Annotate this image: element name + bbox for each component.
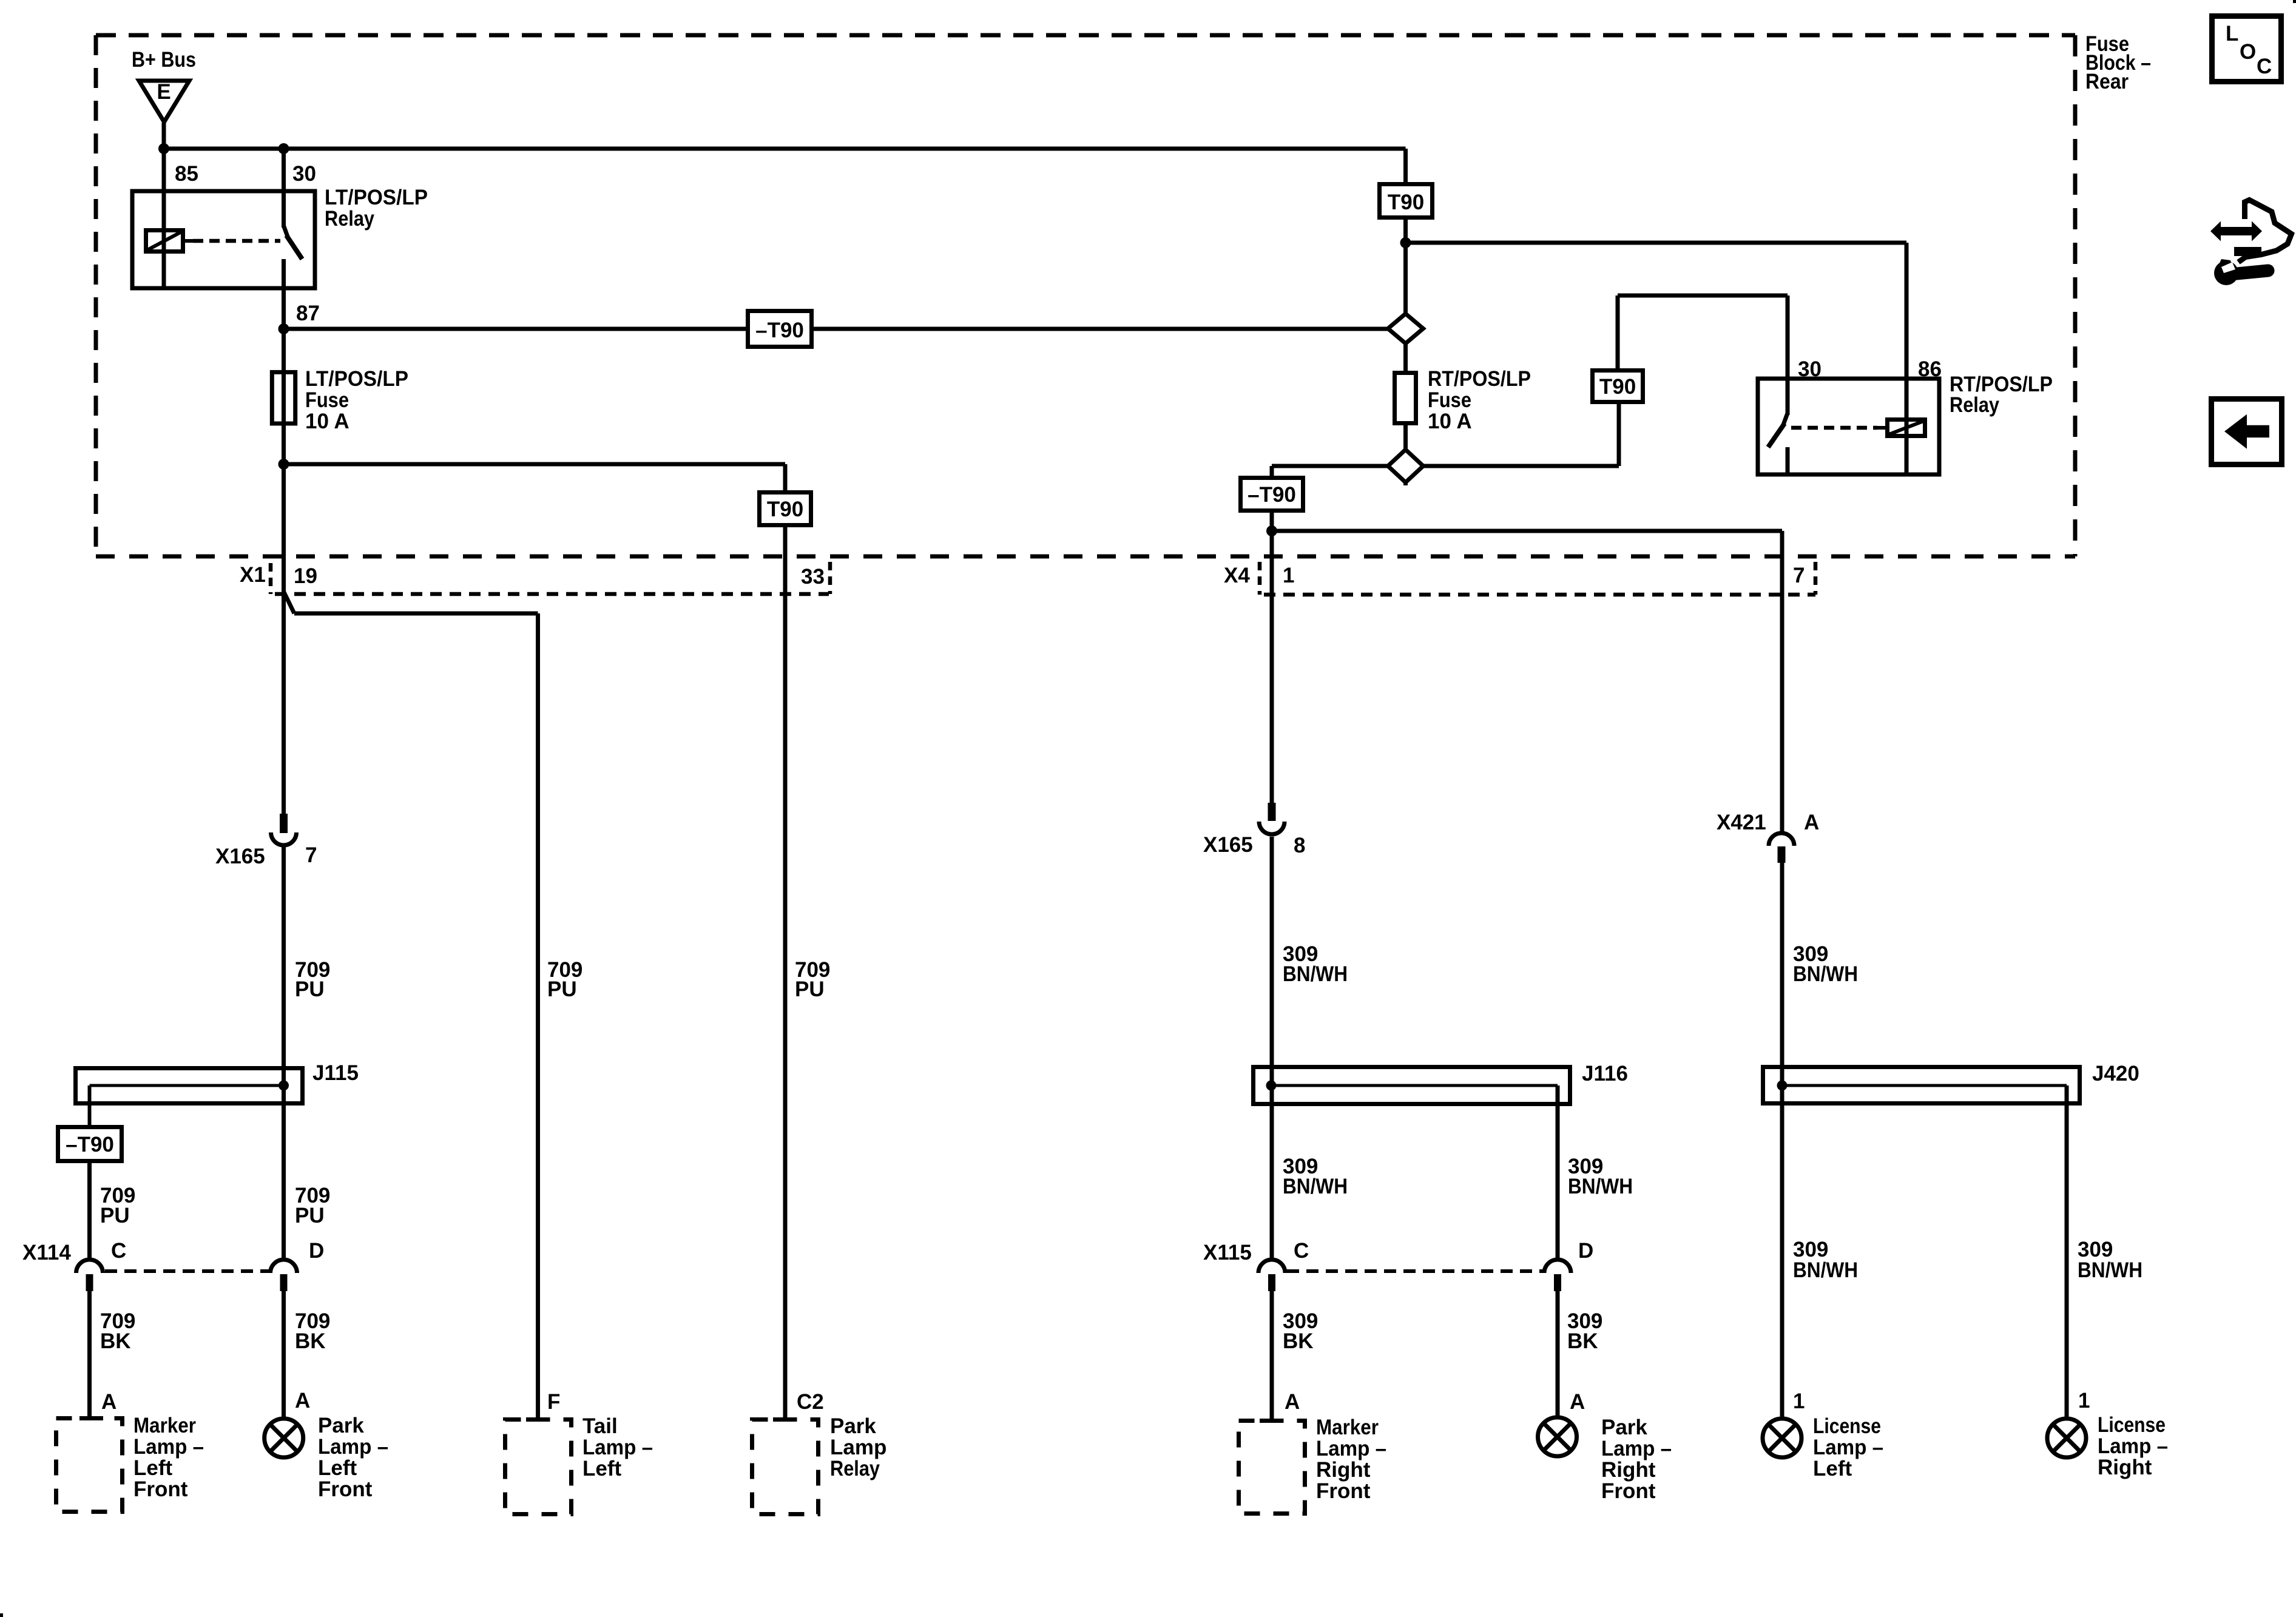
svg-text:Left: Left — [1813, 1457, 1852, 1480]
wire: pin 86 riser down into RT relay — [1905, 243, 1909, 474]
connector X165 pin 7 female cup — [271, 832, 297, 845]
svg-text:Right: Right — [1601, 1458, 1656, 1482]
relay LT/POS/LP coil diagonal — [147, 232, 181, 250]
junction: below T90 top — [1400, 237, 1411, 248]
B+ bus terminal E triangle — [139, 81, 189, 122]
lamp: License Lamp Left — [1763, 1419, 1801, 1457]
relay RT/POS/LP switch vertical from pin 30 — [1786, 379, 1790, 415]
connector X165 pin 7 male tick — [280, 814, 288, 833]
junction: below LT fuse — [279, 459, 289, 470]
svg-text:1: 1 — [1793, 1389, 1805, 1413]
svg-text:O: O — [2240, 40, 2256, 64]
svg-text:PU: PU — [100, 1204, 130, 1227]
icon: wrench head — [2214, 261, 2238, 285]
wire: E terminal to bus — [162, 123, 166, 149]
svg-text:X115: X115 — [1203, 1241, 1252, 1264]
connector X165 pin 8 male tick — [1268, 803, 1276, 821]
wire: 87 horizontal run to RT fuse diamond — [284, 327, 1406, 331]
svg-text:Lamp –: Lamp – — [133, 1435, 204, 1459]
svg-text:–T90: –T90 — [66, 1133, 114, 1156]
wire: T90 link riser — [1617, 404, 1621, 466]
svg-text:A: A — [295, 1389, 310, 1413]
node diamond above RT fuse — [1388, 314, 1423, 343]
wire: -T90 to X4-1 junction — [1270, 513, 1274, 531]
splice J115 junction dot — [279, 1081, 289, 1091]
svg-text:PU: PU — [547, 977, 577, 1001]
wire: 33 column T90 to Park Lamp Relay C2 — [783, 527, 788, 1417]
junction: bus/pin30 — [279, 143, 289, 154]
wire: junction horizontal to relay pin 86 — [1406, 241, 1907, 245]
connector X114 pin C female frown — [76, 1260, 103, 1273]
icon: service harness outline — [2238, 200, 2292, 263]
connector X114 pin D female frown — [271, 1260, 297, 1273]
svg-text:Lamp –: Lamp – — [1601, 1437, 1672, 1460]
svg-text:Park: Park — [830, 1414, 876, 1438]
wire: tail lamp column down to F terminal — [536, 613, 540, 1417]
relay RT/POS/LP switch stub — [1786, 447, 1790, 474]
svg-text:Lamp –: Lamp – — [2098, 1434, 2168, 1458]
svg-text:30: 30 — [1798, 357, 1822, 381]
svg-text:Park: Park — [1601, 1416, 1647, 1439]
relay LT/POS/LP switch kink — [284, 226, 288, 237]
svg-text:X421: X421 — [1717, 811, 1766, 834]
svg-text:Relay: Relay — [830, 1457, 880, 1480]
wire: J116 left branch to X115-C — [1270, 1085, 1274, 1259]
svg-text:Fuse: Fuse — [1428, 388, 1471, 412]
svg-text:Park: Park — [318, 1414, 364, 1437]
svg-text:A: A — [101, 1390, 116, 1414]
svg-text:7: 7 — [305, 843, 317, 867]
relay LT/POS/LP box — [132, 191, 315, 288]
svg-text:A: A — [1804, 811, 1819, 834]
relay RT/POS/LP coil — [1888, 420, 1925, 436]
svg-text:PU: PU — [295, 977, 325, 1001]
wire: pin 30 drop into RT relay — [1786, 295, 1790, 379]
svg-text:BN/WH: BN/WH — [1283, 1175, 1348, 1198]
svg-text:Tail: Tail — [582, 1414, 618, 1438]
connector X115 pin C female frown — [1258, 1260, 1285, 1273]
splice J116 junction dot — [1266, 1081, 1277, 1091]
svg-text:Left: Left — [133, 1456, 173, 1480]
wire: horizontal branch to tail lamp column — [294, 612, 538, 616]
fuse block rear dashed border right — [2073, 35, 2078, 556]
svg-text:BK: BK — [100, 1329, 131, 1353]
svg-text:C2: C2 — [797, 1390, 824, 1414]
wire: T90 to junction to RT fuse diamond — [1403, 220, 1408, 371]
wire: X165-8 to J116 — [1270, 837, 1274, 1085]
wire: T90 link top riser — [1616, 295, 1620, 368]
net tag -T90 on J115 branch — [58, 1127, 122, 1161]
svg-text:C: C — [1294, 1239, 1309, 1263]
splice J420 junction dot — [1777, 1081, 1788, 1091]
component box: Tail Lamp Left — [505, 1420, 572, 1514]
svg-text:7: 7 — [1793, 564, 1805, 587]
component box: Park Lamp Relay — [752, 1420, 819, 1514]
svg-text:License: License — [1813, 1414, 1881, 1438]
wire: T90 link horizontal to pin 30 — [1618, 294, 1788, 298]
svg-text:–T90: –T90 — [755, 319, 804, 342]
wire: X165-7 to J115 — [282, 847, 286, 1085]
svg-text:1: 1 — [1283, 564, 1294, 587]
connector X114 pin D male tick — [280, 1274, 288, 1291]
icon: wrench notch — [2221, 262, 2235, 273]
node diamond below RT fuse — [1388, 450, 1423, 482]
connector X114 C-D dashed link — [105, 1269, 269, 1273]
svg-text:Front: Front — [318, 1477, 373, 1501]
wire: branch bend at X1-19 to tail lamp run — [284, 592, 295, 613]
wire: RT fuse to lower diamond — [1403, 425, 1408, 485]
svg-text:T90: T90 — [1599, 375, 1636, 399]
wire: J115 left branch down to -T90 — [88, 1085, 92, 1125]
wire: bus to relay pin 30 (switch) — [282, 149, 286, 228]
junction: pin87 node — [279, 323, 289, 334]
svg-text:10 A: 10 A — [1428, 410, 1472, 433]
svg-text:LT/POS/LP: LT/POS/LP — [325, 186, 428, 209]
junction: E/bus — [158, 143, 169, 154]
svg-text:Front: Front — [1601, 1479, 1656, 1503]
svg-text:BN/WH: BN/WH — [1568, 1175, 1633, 1198]
svg-text:X4: X4 — [1224, 564, 1250, 587]
svg-text:T90: T90 — [767, 498, 803, 521]
svg-text:X114: X114 — [22, 1241, 71, 1264]
relay RT/POS/LP actuating dashed link — [1791, 426, 1877, 430]
svg-text:Fuse: Fuse — [305, 388, 349, 412]
relay RT/POS/LP switch blade — [1768, 424, 1784, 447]
net tag T90 on 33 column — [760, 493, 811, 525]
svg-text:RT/POS/LP: RT/POS/LP — [1428, 367, 1531, 391]
relay RT/POS/LP coil stub — [1877, 426, 1885, 430]
svg-text:87: 87 — [296, 302, 320, 325]
wire: X4-1 column down to X165 pin 8 — [1270, 531, 1274, 805]
connector X421 pin A female frown — [1769, 833, 1794, 846]
net tag -T90 on X4-1 column — [1241, 478, 1303, 511]
wire: X114-D to Park Lamp Left Front — [282, 1290, 286, 1419]
svg-text:Lamp: Lamp — [830, 1436, 886, 1459]
wire: J116 right branch to X115-D — [1556, 1085, 1560, 1259]
lamp: Park Lamp Right Front — [1538, 1417, 1577, 1456]
marker lamp left entry tick — [79, 1416, 103, 1420]
wire: lower junction to T90 riser (33 feed) — [284, 462, 786, 467]
svg-text:BN/WH: BN/WH — [1283, 962, 1348, 986]
wire: X114-C to Marker Lamp Left Front — [87, 1290, 92, 1419]
wire: bus to relay pin 85 through coil — [162, 149, 166, 288]
svg-text:D: D — [309, 1239, 324, 1263]
svg-text:X165: X165 — [1203, 833, 1253, 857]
svg-text:E: E — [157, 80, 171, 104]
splice J420 box — [1763, 1067, 2080, 1104]
svg-text:85: 85 — [175, 162, 198, 186]
svg-text:C: C — [111, 1239, 126, 1263]
page corner mark top right — [2293, 0, 2296, 3]
wire: lower diamond left to -T90 drop — [1272, 464, 1406, 468]
svg-text:Lamp –: Lamp – — [1813, 1436, 1883, 1459]
icon: wrench upper prong — [2218, 259, 2232, 267]
svg-text:C: C — [2257, 55, 2272, 78]
svg-text:86: 86 — [1918, 357, 1942, 381]
svg-text:PU: PU — [295, 1204, 325, 1227]
wire: X4-7 column down to X421-A — [1780, 531, 1784, 832]
svg-text:Front: Front — [1316, 1479, 1371, 1503]
svg-text:Front: Front — [133, 1477, 188, 1501]
svg-text:License: License — [2098, 1413, 2166, 1437]
relay LT/POS/LP switch blade — [286, 235, 302, 259]
svg-text:J115: J115 — [312, 1061, 359, 1085]
fuse block rear dashed border left — [94, 35, 98, 556]
lamp: License Lamp Right — [2047, 1419, 2086, 1457]
icon: service double arrow — [2210, 221, 2262, 241]
relay RT/POS/LP switch kink — [1783, 413, 1788, 425]
wire: lower diamond right to T90 link — [1406, 464, 1619, 468]
svg-text:A: A — [1570, 1390, 1585, 1414]
svg-text:B+ Bus: B+ Bus — [132, 48, 196, 72]
wire: X115-D to Park Lamp Right Front — [1556, 1290, 1560, 1417]
wire: B+ bus horizontal — [164, 147, 1406, 151]
relay RT/POS/LP box — [1758, 379, 1939, 474]
connector X115 pin D male tick — [1554, 1274, 1561, 1291]
svg-text:X165: X165 — [215, 845, 265, 868]
svg-text:30: 30 — [292, 162, 316, 186]
svg-text:1: 1 — [2078, 1389, 2090, 1413]
icon: back arrow — [2224, 414, 2269, 449]
icon: LOC box — [2212, 16, 2281, 82]
fuse block rear dashed border top — [96, 33, 2075, 38]
wire: -T90 to X114-C — [87, 1163, 92, 1259]
connector X1 dashed row — [275, 592, 829, 596]
svg-text:Rear: Rear — [2085, 70, 2129, 93]
svg-text:F: F — [547, 1390, 560, 1414]
icon: service harness lower bar — [2234, 247, 2261, 256]
connector X4 dashed row — [1264, 593, 1815, 597]
svg-text:X1: X1 — [240, 563, 266, 587]
svg-text:8: 8 — [1294, 834, 1305, 857]
fuse LT/POS/LP 10A body — [272, 372, 295, 424]
connector X1 left tick — [269, 563, 273, 594]
svg-text:BK: BK — [1283, 1329, 1314, 1353]
connector X115 C-D dashed link — [1287, 1269, 1542, 1273]
svg-text:Right: Right — [1316, 1458, 1371, 1482]
svg-text:Lamp –: Lamp – — [1316, 1437, 1386, 1460]
net tag T90 on relay link — [1593, 371, 1643, 402]
relay LT/POS/LP coil — [146, 231, 183, 252]
svg-text:J420: J420 — [2092, 1062, 2139, 1085]
marker lamp right entry tick — [1260, 1419, 1283, 1423]
connector X421 pin A male tick — [1778, 846, 1786, 863]
svg-text:BN/WH: BN/WH — [2078, 1258, 2142, 1282]
connector X4 right tick — [1814, 562, 1818, 595]
svg-text:BN/WH: BN/WH — [1793, 962, 1858, 986]
wire: X421-A to J420 — [1780, 862, 1784, 1085]
svg-text:Lamp –: Lamp – — [318, 1435, 388, 1459]
icon: wrench handle — [2230, 271, 2268, 274]
svg-text:Marker: Marker — [1316, 1416, 1379, 1439]
svg-text:BN/WH: BN/WH — [1793, 1258, 1858, 1282]
wire: J115 through to X114-D — [282, 1085, 286, 1259]
svg-text:J116: J116 — [1582, 1062, 1628, 1085]
relay LT/POS/LP actuating dashed link — [193, 239, 280, 243]
svg-text:Relay: Relay — [1950, 393, 1999, 417]
wire: pin 87 stub to junction — [282, 259, 286, 329]
svg-text:D: D — [1578, 1239, 1593, 1263]
svg-text:BK: BK — [1567, 1329, 1598, 1353]
splice J115 box — [76, 1068, 303, 1104]
net tag T90 top right — [1380, 184, 1433, 218]
svg-text:10 A: 10 A — [305, 410, 349, 433]
wire: junction horizontal to X4-7 column — [1272, 529, 1782, 533]
connector X4 left tick — [1258, 562, 1262, 595]
svg-text:L: L — [2226, 22, 2238, 46]
fuse RT/POS/LP 10A body — [1395, 373, 1416, 424]
svg-text:Marker: Marker — [133, 1414, 196, 1437]
net tag -T90 on 87 run — [748, 311, 812, 347]
connector X114 pin C male tick — [86, 1274, 93, 1291]
splice J116 inner bus — [1271, 1084, 1558, 1087]
splice J420 inner bus — [1782, 1084, 2067, 1087]
svg-text:19: 19 — [294, 564, 317, 588]
component box: Marker Lamp Left Front — [56, 1419, 123, 1512]
relay RT/POS/LP coil diagonal — [1889, 421, 1923, 434]
splice J115 inner bus — [90, 1084, 284, 1087]
wire: J420 right branch to License Lamp Right — [2065, 1085, 2069, 1419]
svg-text:–T90: –T90 — [1248, 483, 1296, 507]
junction: below -T90 X4 — [1266, 525, 1277, 536]
svg-text:BK: BK — [295, 1329, 326, 1353]
tail lamp entry tick — [526, 1417, 550, 1422]
page corner mark bottom left — [0, 1613, 3, 1617]
wire: X1-19 column down to X165 pin 7 — [282, 464, 286, 815]
relay LT/POS/LP coil stub — [185, 239, 193, 243]
svg-text:33: 33 — [801, 565, 825, 589]
lamp: Park Lamp Left Front — [265, 1419, 303, 1457]
icon: back arrow box — [2212, 399, 2282, 465]
component box: Marker Lamp Right Front — [1239, 1421, 1305, 1514]
connector X165 pin 8 female cup — [1259, 822, 1285, 834]
svg-text:Left: Left — [582, 1457, 622, 1480]
connector X115 pin C male tick — [1268, 1274, 1275, 1291]
svg-text:Left: Left — [318, 1456, 357, 1480]
wire: bus corner into T90 (top right) — [1403, 149, 1408, 182]
connector X1 right tick — [828, 562, 832, 594]
wire: X115-C to Marker Lamp Right Front — [1270, 1290, 1274, 1421]
wire: corner down into -T90 box — [1270, 466, 1274, 476]
svg-text:Lamp –: Lamp – — [582, 1436, 653, 1459]
splice J116 box — [1254, 1067, 1570, 1104]
wire: 33 feed corner down into T90 box — [783, 464, 788, 527]
park lamp relay entry tick — [773, 1417, 797, 1422]
svg-text:LT/POS/LP: LT/POS/LP — [305, 367, 408, 391]
svg-text:Right: Right — [2098, 1456, 2152, 1479]
fuse block rear dashed border bottom — [96, 555, 2075, 559]
connector X115 pin D female frown — [1544, 1260, 1571, 1273]
wire: LT fuse column junction 87 to fuse and lower junction — [282, 329, 286, 464]
svg-text:A: A — [1285, 1390, 1300, 1414]
svg-text:Relay: Relay — [325, 207, 374, 231]
wire: J420 left branch to License Lamp Left — [1780, 1085, 1784, 1419]
svg-text:PU: PU — [795, 977, 825, 1001]
svg-text:T90: T90 — [1388, 191, 1424, 214]
